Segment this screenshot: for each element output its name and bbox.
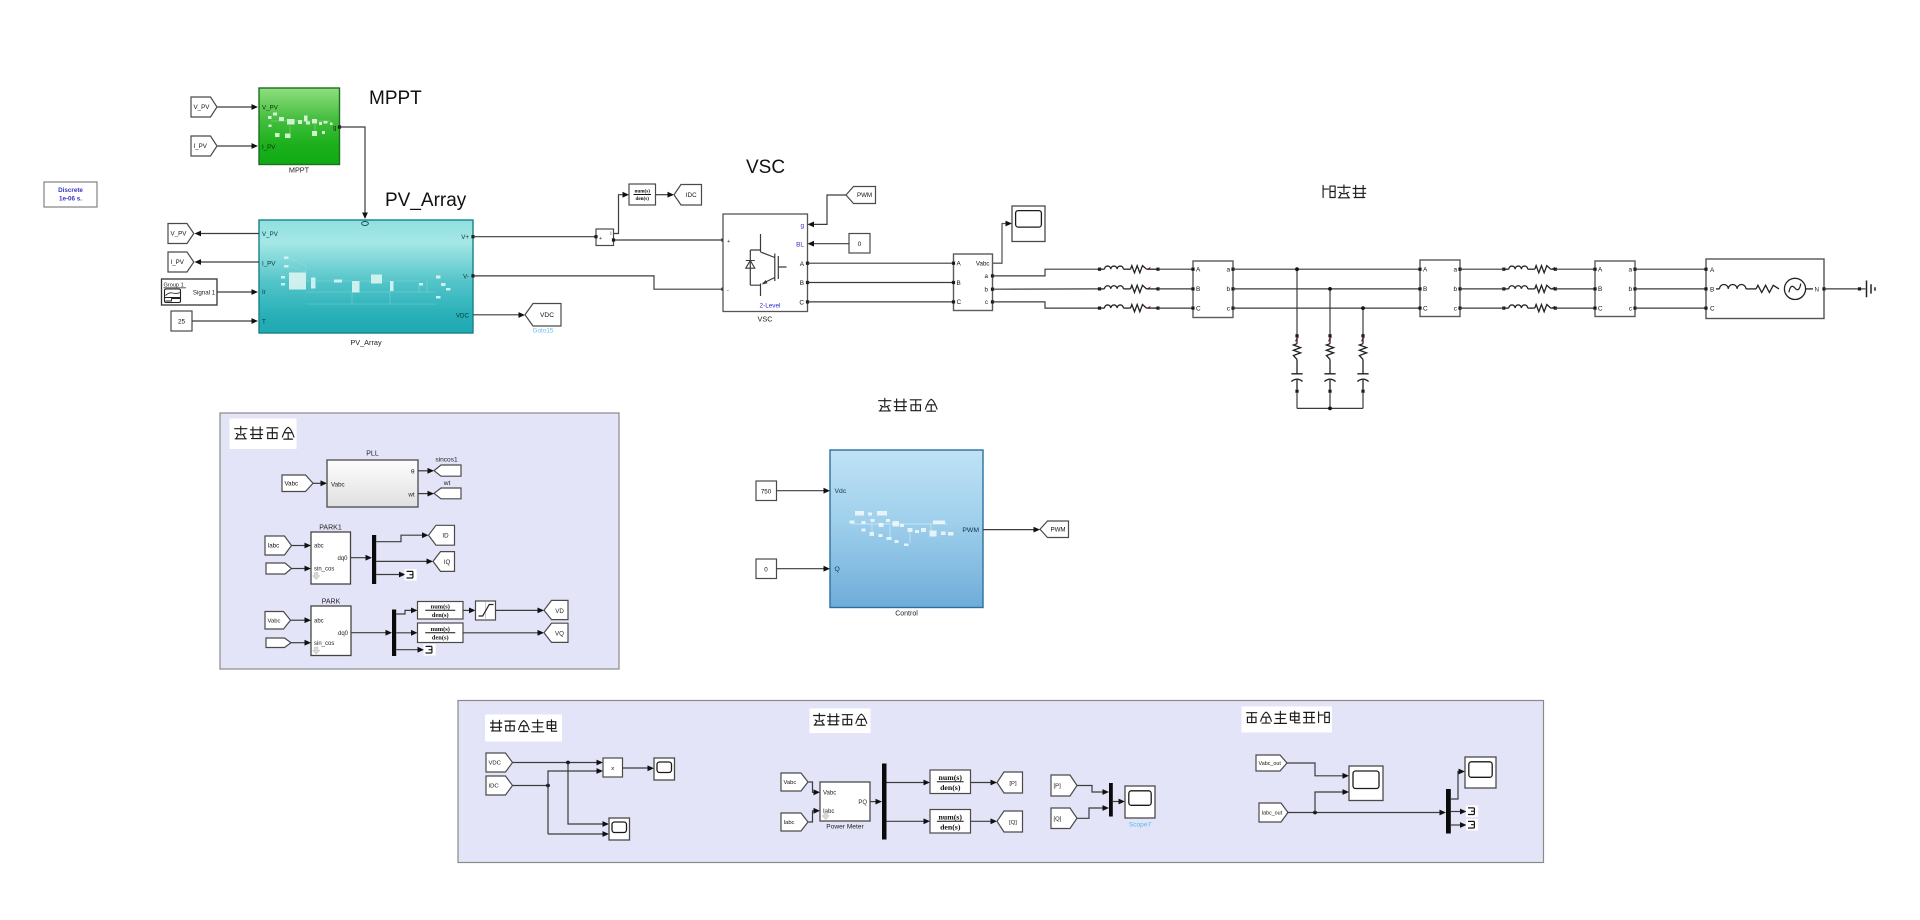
svg-text:PWM: PWM [857, 192, 872, 199]
svg-text:VDC: VDC [456, 312, 470, 319]
svg-text:0: 0 [858, 241, 862, 248]
svg-text:-: - [727, 288, 729, 294]
svg-text:PWM: PWM [1050, 526, 1065, 533]
svg-text:+: + [599, 236, 602, 242]
svg-text:PLL: PLL [366, 451, 379, 458]
svg-text:num(s): num(s) [431, 626, 450, 633]
svg-text:Vabc: Vabc [268, 618, 281, 624]
svg-text:I_PV: I_PV [262, 144, 276, 151]
svg-text:Vdc: Vdc [835, 488, 847, 495]
svg-text:C: C [1710, 306, 1715, 313]
svg-text:[Q]: [Q] [1009, 820, 1017, 826]
svg-text:B: B [800, 280, 804, 287]
svg-text:VDC: VDC [540, 312, 554, 319]
svg-text:a: a [1226, 267, 1230, 274]
svg-text:IDC: IDC [489, 784, 500, 790]
svg-text:PARK1: PARK1 [319, 525, 342, 532]
svg-text:Power Meter: Power Meter [826, 824, 864, 831]
svg-text:Vabc: Vabc [331, 482, 345, 489]
svg-text:Vabc: Vabc [823, 791, 836, 797]
svg-text:a: a [1628, 267, 1632, 274]
svg-text:Vabc: Vabc [784, 780, 797, 786]
svg-text:Scope7: Scope7 [1129, 822, 1152, 829]
svg-text:a: a [1453, 267, 1457, 274]
svg-text:IDC: IDC [686, 192, 697, 199]
svg-text:den(s): den(s) [940, 783, 961, 792]
svg-text:A: A [1196, 267, 1201, 274]
svg-text:num(s): num(s) [939, 812, 963, 821]
svg-text:Vabc: Vabc [285, 480, 299, 487]
svg-text:VQ: VQ [555, 630, 564, 637]
svg-text:B: B [1196, 286, 1200, 293]
svg-text:Q: Q [835, 566, 840, 573]
svg-text:VSC: VSC [757, 315, 772, 324]
svg-text:C: C [799, 299, 804, 306]
svg-text:PARK: PARK [322, 599, 341, 606]
svg-text:Discrete: Discrete [58, 187, 83, 194]
svg-text:ID: ID [442, 533, 449, 540]
svg-text:A: A [1423, 267, 1428, 274]
svg-text:abc: abc [314, 618, 324, 624]
svg-text:C: C [1196, 305, 1201, 312]
svg-text:wt: wt [443, 480, 451, 487]
svg-text:num(s): num(s) [939, 773, 963, 782]
svg-text:den(s): den(s) [432, 612, 449, 619]
svg-text:Vabc_out: Vabc_out [1259, 761, 1282, 767]
svg-text:x: x [611, 766, 614, 772]
svg-text:I_PV: I_PV [194, 143, 208, 150]
svg-text:c: c [985, 299, 988, 306]
svg-text:C: C [1423, 305, 1428, 312]
svg-text:A: A [1598, 267, 1603, 274]
svg-text:B: B [957, 280, 961, 287]
svg-text:V_PV: V_PV [194, 104, 211, 111]
svg-text:A: A [800, 261, 805, 268]
svg-text:b: b [1628, 286, 1632, 293]
svg-text:A: A [1710, 267, 1715, 274]
svg-text:den(s): den(s) [940, 823, 961, 832]
svg-text:wt: wt [407, 491, 414, 498]
svg-text:0: 0 [764, 567, 768, 574]
svg-text:g: g [333, 124, 337, 131]
svg-text:[P]: [P] [1009, 781, 1017, 787]
svg-text:θ: θ [411, 468, 415, 475]
svg-text:PV_Array: PV_Array [385, 190, 467, 211]
svg-text:B: B [1710, 286, 1714, 293]
svg-text:a: a [985, 273, 989, 280]
svg-text:Vabc: Vabc [976, 261, 990, 268]
svg-text:num(s): num(s) [634, 188, 650, 195]
svg-text:2-Level: 2-Level [760, 303, 781, 310]
svg-text:sincos1: sincos1 [435, 457, 458, 464]
svg-text:N: N [1815, 286, 1819, 293]
svg-text:Control: Control [895, 611, 918, 618]
svg-text:sin_cos: sin_cos [314, 641, 334, 647]
svg-text:b: b [985, 287, 989, 294]
svg-text:sin_cos: sin_cos [314, 567, 334, 573]
svg-text:VD: VD [555, 608, 564, 615]
svg-text:+: + [727, 239, 730, 245]
svg-text:i: i [610, 231, 611, 237]
svg-text:PQ: PQ [858, 800, 867, 806]
svg-text:IQ: IQ [444, 559, 451, 566]
svg-text:C: C [957, 299, 962, 306]
svg-text:750: 750 [761, 489, 772, 496]
svg-text:Signal 1: Signal 1 [193, 290, 216, 297]
svg-text:VSC: VSC [746, 157, 785, 178]
svg-text:25: 25 [178, 319, 186, 326]
svg-text:MPPT: MPPT [369, 88, 422, 109]
svg-text:T: T [262, 319, 266, 326]
svg-text:A: A [957, 261, 962, 268]
svg-text:MPPT: MPPT [289, 166, 310, 175]
svg-text:den(s): den(s) [635, 195, 649, 202]
svg-text:B: B [1423, 286, 1427, 293]
svg-text:dq0: dq0 [338, 631, 349, 637]
svg-text:b: b [1226, 286, 1230, 293]
svg-text:PWM: PWM [962, 527, 979, 534]
svg-text:Ir: Ir [262, 289, 266, 296]
svg-text:den(s): den(s) [432, 635, 449, 642]
svg-text:abc: abc [314, 544, 324, 550]
svg-text:1e-06 s.: 1e-06 s. [59, 196, 82, 203]
svg-text:B: B [1598, 286, 1602, 293]
svg-text:V_PV: V_PV [171, 231, 188, 238]
svg-text:[Q]: [Q] [1054, 816, 1062, 822]
svg-text:g: g [800, 223, 804, 230]
svg-text:V+: V+ [461, 234, 469, 241]
svg-text:Iabc: Iabc [784, 820, 795, 826]
svg-text:[P]: [P] [1054, 784, 1062, 790]
svg-text:V_PV: V_PV [262, 105, 279, 112]
svg-text:V_PV: V_PV [262, 231, 279, 238]
svg-text:Goto15: Goto15 [533, 328, 554, 335]
svg-text:BL: BL [796, 242, 804, 249]
svg-text:Iabc: Iabc [268, 543, 280, 550]
svg-text:VDC: VDC [489, 761, 502, 767]
svg-text:Iabc_out: Iabc_out [1262, 811, 1283, 817]
svg-text:PV_Array: PV_Array [350, 338, 382, 347]
svg-text:I_PV: I_PV [262, 261, 276, 268]
svg-text:V-: V- [463, 273, 469, 280]
svg-text:dq0: dq0 [337, 556, 348, 562]
svg-text:b: b [1453, 286, 1457, 293]
svg-text:I_PV: I_PV [171, 259, 185, 266]
svg-text:C: C [1598, 305, 1603, 312]
svg-text:num(s): num(s) [431, 603, 450, 610]
